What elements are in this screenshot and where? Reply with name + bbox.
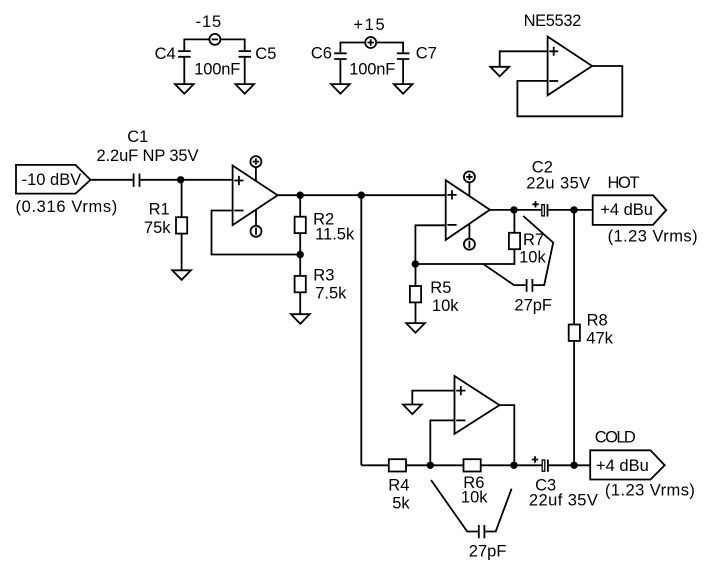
ground (R5) bbox=[406, 323, 425, 333]
capacitor C3 electrolytic bbox=[532, 456, 548, 472]
svg-text:22u 35V: 22u 35V bbox=[526, 175, 590, 193]
op-amp U4 (NE5532 legend) bbox=[548, 37, 593, 96]
wire (C2 to HOT) bbox=[548, 209, 592, 211]
node (U2 out / R7 / C2) bbox=[510, 206, 517, 213]
resistor R2 bbox=[295, 195, 306, 254]
node (U2 fb / R5 / R7) bbox=[412, 260, 419, 267]
svg-text:C2: C2 bbox=[532, 158, 553, 176]
svg-text:27pF: 27pF bbox=[469, 543, 507, 561]
node (C3/R8/COLD) bbox=[570, 462, 577, 469]
resistor R5 bbox=[410, 264, 421, 323]
ground (C5) bbox=[235, 84, 254, 94]
op-amp U2 bbox=[446, 180, 490, 240]
wire (U2 feedback) bbox=[415, 225, 445, 264]
node (main wire / branch to R4) bbox=[358, 192, 365, 199]
ground (U4 input) bbox=[490, 67, 509, 77]
capacitor C4 bbox=[178, 51, 191, 84]
node (C2 / R8 / HOT) bbox=[570, 206, 577, 213]
resistor R1 bbox=[176, 180, 187, 270]
connector input -10 dBV bbox=[16, 165, 91, 194]
svg-text:-15: -15 bbox=[196, 13, 222, 31]
svg-text:-10 dBV: -10 dBV bbox=[22, 171, 82, 189]
capacitor C7 bbox=[397, 53, 410, 84]
svg-text:R4: R4 bbox=[388, 477, 409, 495]
wire (fb node to R7 bottom) bbox=[415, 249, 514, 264]
wire (C1 to op-amp U1) bbox=[140, 179, 232, 181]
svg-text:(1.23 Vrms): (1.23 Vrms) bbox=[605, 482, 695, 500]
node (R2/R3/feedback) bbox=[297, 251, 304, 258]
svg-text:(1.23 Vrms): (1.23 Vrms) bbox=[608, 227, 698, 245]
svg-text:R5: R5 bbox=[430, 279, 451, 297]
op-amp U3 bbox=[455, 376, 500, 434]
wire (U1 feedback) bbox=[212, 211, 301, 255]
supply V+ (U2) bbox=[464, 171, 475, 196]
wire (bottom rail) bbox=[361, 464, 590, 466]
ground (C7) bbox=[394, 84, 413, 94]
wire (U3 - input to R4/R6 node) bbox=[430, 420, 454, 465]
svg-text:+15: +15 bbox=[353, 16, 384, 34]
svg-text:R7: R7 bbox=[523, 231, 544, 249]
wire (U2 output) bbox=[490, 209, 541, 211]
svg-text:10k: 10k bbox=[461, 489, 488, 507]
capacitor C1 bbox=[134, 174, 140, 187]
svg-text:75k: 75k bbox=[144, 219, 171, 237]
supply V- (U1) bbox=[251, 210, 262, 237]
svg-text:100nF: 100nF bbox=[194, 60, 240, 78]
capacitor C5 bbox=[239, 51, 252, 84]
svg-text:C4: C4 bbox=[155, 45, 176, 63]
svg-text:11.5k: 11.5k bbox=[315, 226, 355, 244]
op-amp U1 bbox=[233, 166, 278, 226]
node (R6/U3 out/C3) bbox=[510, 462, 517, 469]
wire (U1 output to U2 input) bbox=[278, 194, 446, 196]
svg-text:47k: 47k bbox=[586, 329, 613, 347]
svg-text:C6: C6 bbox=[311, 45, 332, 63]
node (C1/R1) bbox=[177, 176, 184, 183]
supply rail +15 symbol bbox=[340, 37, 403, 52]
svg-text:100nF: 100nF bbox=[349, 60, 395, 78]
svg-text:27pF: 27pF bbox=[514, 296, 552, 314]
svg-text:COLD: COLD bbox=[595, 428, 636, 446]
resistor R3 bbox=[295, 255, 306, 315]
wire (input to C1) bbox=[91, 179, 133, 181]
ground (U3 input) bbox=[403, 405, 422, 415]
wire (branch down to R4) bbox=[360, 195, 362, 465]
ground (R3) bbox=[291, 314, 310, 324]
svg-text:R8: R8 bbox=[587, 312, 608, 330]
svg-text:HOT: HOT bbox=[608, 174, 640, 192]
supply V- (U2) bbox=[464, 224, 475, 250]
ground (R1) bbox=[172, 270, 191, 280]
node (U1 out / R2) bbox=[297, 192, 304, 199]
supply rail -15 symbol bbox=[184, 34, 244, 50]
svg-text:10k: 10k bbox=[432, 297, 459, 315]
capacitor CF1 27pF leads bbox=[484, 216, 553, 292]
svg-text:R3: R3 bbox=[313, 267, 334, 285]
svg-text:2.2uF NP 35V: 2.2uF NP 35V bbox=[97, 147, 199, 165]
wire (U4 + input to ground) bbox=[500, 51, 548, 67]
capacitor C6 bbox=[334, 53, 347, 84]
svg-text:10k: 10k bbox=[519, 249, 546, 267]
connector HOT +4 dBu bbox=[593, 195, 667, 225]
svg-text:NE5532: NE5532 bbox=[524, 12, 582, 30]
svg-text:R1: R1 bbox=[149, 201, 170, 219]
svg-text:22uf 35V: 22uf 35V bbox=[529, 492, 598, 510]
connector COLD +4 dBu bbox=[590, 450, 665, 479]
resistor R8 bbox=[569, 210, 580, 465]
svg-text:C1: C1 bbox=[127, 128, 148, 146]
wire (U3 output down) bbox=[500, 405, 515, 465]
resistor R4 bbox=[389, 459, 406, 471]
supply V+ (U1) bbox=[250, 156, 261, 181]
svg-text:C5: C5 bbox=[255, 45, 276, 63]
resistor R6 bbox=[464, 459, 481, 471]
wire (U3 + input to ground) bbox=[412, 391, 454, 405]
node (R4/R6/U3 fb) bbox=[427, 462, 434, 469]
svg-text:C7: C7 bbox=[416, 45, 437, 63]
svg-text:(0.316 Vrms): (0.316 Vrms) bbox=[16, 198, 118, 216]
wire (U4 feedback loop) bbox=[517, 66, 622, 116]
svg-text:+4 dBu: +4 dBu bbox=[596, 457, 649, 475]
capacitor CF2 27pF leads bbox=[431, 480, 512, 538]
svg-text:7.5k: 7.5k bbox=[315, 285, 347, 303]
capacitor C2 electrolytic bbox=[532, 201, 547, 216]
svg-text:+4 dBu: +4 dBu bbox=[600, 201, 653, 219]
ground (C4) bbox=[175, 84, 194, 94]
svg-text:5k: 5k bbox=[392, 495, 410, 513]
ground (C6) bbox=[331, 84, 350, 94]
resistor R7 bbox=[509, 210, 520, 249]
